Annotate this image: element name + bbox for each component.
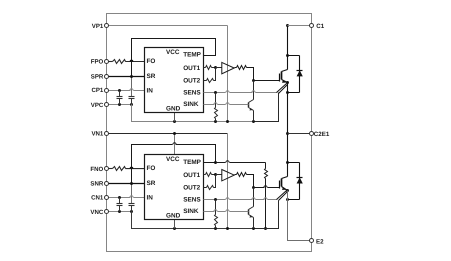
junction sink transistor on rail bbox=[252, 120, 255, 123]
wire gate node to IGBT gate bbox=[254, 187, 265, 189]
svg-text:TEMP: TEMP bbox=[183, 52, 201, 59]
wire diode anode 1 bbox=[288, 92, 300, 94]
resistor gate drive bbox=[235, 67, 237, 69]
svg-text:OUT1: OUT1 bbox=[183, 172, 200, 179]
svg-text:FPO: FPO bbox=[91, 59, 104, 66]
junction GND pin on rail bbox=[173, 227, 176, 230]
junction emitter/diode 2 bbox=[286, 198, 289, 201]
IGBT Q1m bbox=[287, 56, 289, 70]
capacitor C1b bbox=[131, 96, 133, 98]
terminal VNC bbox=[105, 210, 109, 214]
svg-text:CP1: CP1 bbox=[91, 87, 103, 94]
svg-text:TEMP: TEMP bbox=[183, 159, 201, 166]
wire to C2E1 terminal bbox=[288, 133, 312, 135]
wire sink emitter to rail bbox=[253, 218, 255, 229]
wire collector IGBT1 to C1 bbox=[287, 26, 289, 56]
junction buffer on rail bbox=[226, 120, 229, 123]
wire gate node to sink transistor bbox=[253, 188, 255, 207]
terminal VPC bbox=[105, 103, 109, 107]
IGBT Q2m bbox=[287, 163, 289, 177]
terminal VP1 bbox=[105, 24, 109, 28]
junction emitter/diode 1 bbox=[286, 91, 289, 94]
wire buffer supply vertical bbox=[227, 26, 229, 122]
wire local emitter rail 1 bbox=[132, 105, 254, 122]
sense emitter leads 2 bbox=[277, 191, 287, 200]
svg-text:SINK: SINK bbox=[183, 101, 199, 108]
junction gate node bbox=[252, 186, 255, 189]
terminal VN1 bbox=[105, 132, 109, 136]
wire gate node to IGBT gate bbox=[254, 80, 280, 82]
junction SPR/loop bus bbox=[130, 75, 133, 78]
junction C1 node bbox=[286, 24, 289, 27]
junction TEMP2 resistor on rail bbox=[264, 227, 267, 230]
wire SINK2 to transistor base bbox=[204, 211, 215, 213]
svg-text:SPR: SPR bbox=[91, 74, 104, 81]
buffer amplifier A1 bbox=[222, 62, 234, 73]
resistor sense R1s bbox=[215, 93, 217, 108]
capacitor C2a bbox=[119, 198, 121, 204]
junction emitter node 1 bbox=[286, 81, 289, 84]
svg-text:SENS: SENS bbox=[183, 197, 201, 204]
resistor R5 TEMP2 to rail bbox=[265, 163, 267, 169]
junction GND pin on rail bbox=[173, 120, 176, 123]
terminal C2E1 bbox=[310, 132, 314, 136]
terminal FNO bbox=[105, 167, 109, 171]
junction VNC cap1 bbox=[118, 210, 121, 213]
junction sens resistor on rail bbox=[214, 120, 217, 123]
sense emitter leads 1 bbox=[277, 84, 287, 93]
resistor RFPO bbox=[113, 60, 126, 64]
wire VN1 supply rail to totem buffer bbox=[107, 133, 228, 135]
svg-text:C2E1: C2E1 bbox=[314, 131, 330, 138]
junction C2E1 node bbox=[286, 132, 289, 135]
junction VNC cap2 bbox=[130, 210, 133, 213]
hop SENS2 wire over TEMP2 resistor leg bbox=[264, 198, 267, 200]
svg-text:VPC: VPC bbox=[91, 102, 104, 109]
diode D2 bbox=[286, 161, 289, 164]
svg-text:OUT2: OUT2 bbox=[183, 185, 200, 192]
svg-text:VN1: VN1 bbox=[91, 130, 103, 137]
junction SNR/loop bus bbox=[130, 182, 133, 185]
node A gate drive sum bbox=[214, 173, 217, 176]
svg-text:SINK: SINK bbox=[183, 208, 199, 215]
hop TEMP2 wire over buffer supply bbox=[226, 161, 229, 163]
resistor gate drive bbox=[235, 174, 237, 176]
svg-text:E2: E2 bbox=[316, 238, 324, 245]
svg-text:C1: C1 bbox=[316, 23, 324, 30]
capacitor C2b bbox=[131, 203, 133, 205]
resistor on OUT1 bbox=[204, 67, 206, 69]
terminal C1 bbox=[310, 24, 314, 28]
svg-text:OUT1: OUT1 bbox=[183, 65, 200, 72]
junction TEMP2 loop bbox=[214, 161, 217, 164]
junction VPC cap1 bbox=[118, 103, 121, 106]
gate driver IC U2 bbox=[145, 155, 204, 220]
wire VPC bbox=[107, 104, 132, 106]
wire GND2 pin bbox=[174, 220, 176, 229]
resistor on OUT2 bbox=[204, 80, 207, 82]
wire rail to main emitter node 1 bbox=[254, 93, 279, 122]
gate driver IC U1 bbox=[145, 48, 204, 113]
wire rail to main emitter node 2 bbox=[254, 201, 279, 229]
node A gate drive sum bbox=[214, 66, 217, 69]
svg-text:FNO: FNO bbox=[90, 166, 103, 173]
svg-text:SR: SR bbox=[147, 73, 156, 80]
wire buffer supply vertical bbox=[227, 134, 229, 229]
svg-text:GND: GND bbox=[166, 213, 181, 220]
wire sink emitter to rail bbox=[253, 111, 255, 122]
svg-text:IN: IN bbox=[147, 195, 154, 202]
junction SENS/resistor bbox=[214, 198, 217, 201]
svg-text:FO: FO bbox=[147, 58, 156, 65]
wire emitter1 vertical to C2E1 and collector2 bbox=[287, 83, 289, 163]
terminal CP1 bbox=[105, 89, 109, 93]
junction buffer on rail bbox=[226, 227, 229, 230]
terminal SNR bbox=[105, 182, 109, 186]
wire VP1 supply rail to totem buffer bbox=[107, 25, 228, 27]
wire CN1 to IN pin bbox=[107, 197, 131, 199]
buffer amplifier A2 bbox=[222, 170, 234, 181]
junction bump FNO over loop bus bbox=[130, 167, 133, 169]
wire GND1 pin bbox=[174, 113, 176, 122]
wire SINK1 to transistor base bbox=[204, 104, 215, 106]
wire gate node to sink transistor bbox=[253, 81, 255, 100]
svg-text:GND: GND bbox=[166, 105, 181, 112]
junction CN1/C filter bbox=[118, 196, 121, 199]
wire diode anode 2 bbox=[288, 199, 300, 201]
terminal CN1 bbox=[105, 196, 109, 200]
wire SENS1 bbox=[204, 92, 226, 94]
wire to C1 terminal bbox=[288, 25, 312, 27]
svg-text:VCC: VCC bbox=[166, 156, 180, 163]
wire VCC2 pin connection from VN1 bbox=[174, 134, 176, 155]
hop TEMP2 loop over VCC2 wire bbox=[173, 143, 176, 145]
wire SENS2 bbox=[204, 199, 226, 201]
transistor Q2 gate sink bbox=[248, 210, 250, 215]
wire TEMP2 to gate resistor bbox=[216, 162, 226, 164]
svg-text:VP1: VP1 bbox=[92, 23, 104, 30]
wire SNR to SR pin bbox=[107, 183, 145, 185]
terminal wire FNO with resistor bbox=[107, 168, 113, 170]
svg-text:CN1: CN1 bbox=[91, 194, 104, 201]
hop gate wire over TEMP2 resistor leg bbox=[264, 186, 267, 188]
resistor RFNO bbox=[113, 167, 126, 171]
junction sens resistor on rail bbox=[214, 227, 217, 230]
diode D1 bbox=[286, 54, 289, 57]
junction VPC cap2 bbox=[130, 103, 133, 106]
junction CP1/C filter bbox=[118, 89, 121, 92]
svg-text:FO: FO bbox=[147, 165, 156, 172]
terminal SPR bbox=[105, 75, 109, 79]
wire local emitter rail 2 bbox=[132, 212, 254, 229]
svg-text:IN: IN bbox=[147, 87, 154, 94]
junction SENS/resistor bbox=[214, 91, 217, 94]
capacitor C1a bbox=[119, 91, 121, 97]
wire CP1 to IN pin bbox=[107, 90, 131, 92]
terminal wire FPO with resistor bbox=[107, 61, 113, 63]
svg-text:SR: SR bbox=[147, 180, 156, 187]
svg-text:VCC: VCC bbox=[166, 49, 180, 56]
terminal FPO bbox=[105, 60, 109, 64]
wire emitter2 to E2 terminal bbox=[288, 191, 312, 241]
svg-text:OUT2: OUT2 bbox=[183, 78, 200, 85]
svg-text:SNR: SNR bbox=[90, 181, 103, 188]
transistor Q1 gate sink bbox=[248, 103, 250, 108]
resistor sense R2s bbox=[215, 200, 217, 215]
junction bump FPO over loop bus bbox=[130, 60, 133, 62]
wire TEMP1 feedback loop bbox=[132, 39, 216, 77]
junction sink transistor on rail bbox=[252, 227, 255, 230]
wire SPR to SR pin bbox=[107, 76, 145, 78]
package outline border bbox=[107, 14, 312, 252]
wire TEMP2 feedback loop bbox=[176, 145, 216, 163]
wire VNC bbox=[107, 211, 132, 213]
junction VN1/VCC2 bbox=[173, 132, 176, 135]
junction gate node bbox=[252, 79, 255, 82]
junction emitter node 2 bbox=[286, 189, 289, 192]
resistor on OUT2 bbox=[204, 187, 207, 189]
svg-text:VNC: VNC bbox=[90, 209, 103, 216]
terminal E2 bbox=[310, 239, 314, 243]
resistor on OUT1 bbox=[204, 174, 206, 176]
svg-text:SENS: SENS bbox=[183, 90, 201, 97]
